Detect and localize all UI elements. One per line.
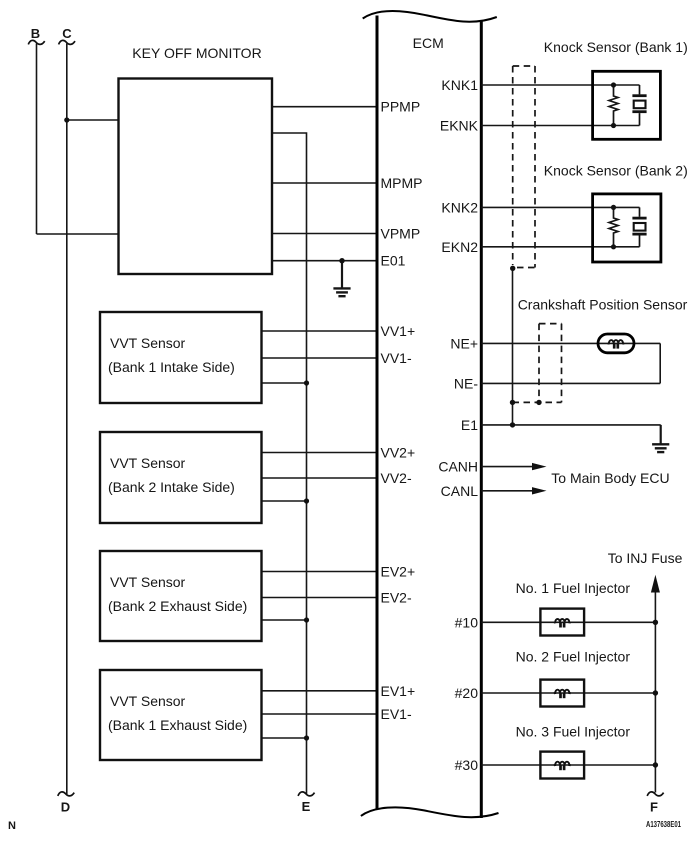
svg-text:MPMP: MPMP: [381, 175, 423, 191]
crankshaft position sensor pickup coil: [598, 334, 634, 353]
node drain to E1: [510, 422, 515, 427]
VVT sensor (Bank 1 Exhaust Side) box: [100, 670, 262, 760]
VVT sensor (Bank 1 Intake Side) box: [100, 312, 262, 403]
wire key-off-monitor to E bus: [272, 133, 307, 795]
svg-text:VV2-: VV2-: [381, 470, 412, 486]
svg-text:(Bank 1 Exhaust Side): (Bank 1 Exhaust Side): [108, 717, 247, 733]
svg-text:VV1-: VV1-: [381, 350, 412, 366]
svg-text:(Bank 2 Exhaust Side): (Bank 2 Exhaust Side): [108, 598, 247, 614]
wire EV2+: [262, 571, 378, 573]
wire #30: [481, 764, 655, 766]
svg-text:E01: E01: [381, 253, 406, 269]
wire EV2-: [262, 597, 378, 599]
ground (E01): [333, 288, 350, 296]
wire VV2+: [262, 452, 378, 454]
arrowhead CANL: [532, 487, 547, 494]
wire VVT2 to E bus: [262, 500, 307, 502]
wire PPMP: [272, 106, 377, 108]
wire CANL arrow: [481, 490, 534, 492]
resistor (knock sensor 1): [609, 85, 618, 126]
wire MPMP: [272, 182, 377, 184]
svg-text:VVT Sensor: VVT Sensor: [110, 574, 186, 590]
svg-text:EV1+: EV1+: [381, 683, 416, 699]
svg-text:KNK2: KNK2: [441, 199, 478, 215]
right-side wires: [481, 85, 660, 793]
wire C to key-off-monitor: [67, 119, 119, 121]
svg-text:Knock Sensor (Bank 1): Knock Sensor (Bank 1): [544, 39, 688, 55]
connector C wire: [66, 44, 68, 795]
node E01 ground tap: [339, 258, 344, 263]
node VVT2 on E bus: [304, 498, 309, 503]
svg-text:No. 2 Fuel Injector: No. 2 Fuel Injector: [516, 649, 631, 665]
No.1 fuel injector: [540, 609, 584, 636]
connector F break: [647, 792, 663, 796]
node knock shield drain: [510, 266, 515, 271]
wire B to key-off-monitor: [37, 233, 119, 235]
wire KNK2: [481, 206, 639, 208]
VVT sensor (Bank 2 Exhaust Side) box: [100, 551, 262, 641]
wire VV1+: [262, 330, 378, 332]
svg-text:To INJ Fuse: To INJ Fuse: [608, 550, 683, 566]
wire shield drain: [512, 268, 514, 425]
svg-text:To Main Body ECU: To Main Body ECU: [551, 470, 669, 486]
svg-text:E1: E1: [461, 417, 478, 433]
connector D break: [58, 792, 74, 796]
piezo element (knock sensor 1): [632, 85, 646, 126]
wire injector bus to INJ fuse: [654, 590, 656, 793]
node drain at crank shield: [510, 400, 515, 405]
wire VPMP: [272, 233, 377, 235]
svg-text:No. 1 Fuel Injector: No. 1 Fuel Injector: [516, 580, 631, 596]
svg-text:B: B: [31, 26, 40, 41]
svg-text:EV2+: EV2+: [381, 564, 416, 580]
wire NE+: [481, 342, 660, 344]
wire EKNK: [481, 125, 639, 127]
svg-text:VVT Sensor: VVT Sensor: [110, 335, 186, 351]
wire EKN2: [481, 246, 639, 248]
wire NE-: [481, 382, 660, 384]
svg-text:C: C: [62, 26, 72, 41]
svg-text:EKN2: EKN2: [441, 239, 478, 255]
svg-text:CANL: CANL: [441, 483, 479, 499]
svg-text:A137638E01: A137638E01: [646, 820, 681, 829]
svg-text:CANH: CANH: [438, 459, 478, 475]
svg-text:VV2+: VV2+: [381, 445, 416, 461]
svg-text:ECM: ECM: [413, 35, 444, 51]
svg-text:EV1-: EV1-: [381, 706, 412, 722]
ground (E1): [652, 444, 669, 452]
connector C break: [59, 40, 75, 44]
svg-text:KEY OFF MONITOR: KEY OFF MONITOR: [132, 45, 261, 61]
shielded cable (crankshaft sensor): [513, 324, 562, 403]
svg-text:No. 3 Fuel Injector: No. 3 Fuel Injector: [516, 724, 631, 740]
svg-text:F: F: [650, 800, 658, 815]
svg-text:Knock Sensor (Bank 2): Knock Sensor (Bank 2): [544, 163, 688, 179]
connector B break: [28, 40, 44, 44]
svg-text:E: E: [302, 799, 311, 814]
wire KNK1: [481, 84, 639, 86]
wire E01 ground stub: [341, 261, 343, 289]
ECM block: [361, 11, 499, 818]
wire VV2-: [262, 477, 378, 479]
node VVT3 on E bus: [304, 617, 309, 622]
svg-text:N: N: [8, 820, 16, 832]
svg-text:(Bank 2 Intake Side): (Bank 2 Intake Side): [108, 479, 235, 495]
wire EV1-: [262, 713, 378, 715]
svg-text:#30: #30: [455, 757, 479, 773]
node injector 1 bus: [653, 620, 658, 625]
svg-text:#20: #20: [455, 685, 479, 701]
wire VVT1 to E bus: [262, 382, 307, 384]
svg-text:VVT Sensor: VVT Sensor: [110, 455, 186, 471]
wire NE return: [659, 343, 661, 383]
node knock1 top: [611, 82, 616, 87]
wire VVT4 to E bus: [262, 737, 307, 739]
wire EV1+: [262, 690, 378, 692]
svg-text:NE+: NE+: [450, 335, 478, 351]
connector E break: [298, 792, 314, 796]
svg-text:EKNK: EKNK: [440, 118, 479, 134]
key off monitor block: [119, 45, 273, 274]
VVT sensor (Bank 2 Intake Side) box: [100, 432, 262, 523]
svg-text:PPMP: PPMP: [381, 99, 421, 115]
knock sensor (Bank 2) box: [593, 194, 661, 262]
wire #10: [481, 621, 655, 623]
node injector 3 bus: [653, 762, 658, 767]
resistor (knock sensor 2): [609, 207, 618, 246]
wire VV1-: [262, 357, 378, 359]
node knock2 top: [611, 205, 616, 210]
connector B wire: [36, 44, 38, 235]
wire #20: [481, 692, 655, 694]
svg-text:(Bank 1 Intake Side): (Bank 1 Intake Side): [108, 359, 235, 375]
svg-text:VV1+: VV1+: [381, 323, 416, 339]
wire E1: [481, 424, 660, 426]
wire E1 ground stub: [660, 425, 662, 444]
arrowhead to INJ fuse: [651, 575, 660, 593]
shielded cable (knock sensors): [513, 66, 535, 268]
svg-text:VPMP: VPMP: [381, 226, 421, 242]
node crank shield bottom: [536, 400, 541, 405]
wire CANH arrow: [481, 466, 534, 468]
node knock2 bottom: [611, 244, 616, 249]
svg-text:D: D: [61, 800, 70, 815]
node knock1 bottom: [611, 123, 616, 128]
piezo element (knock sensor 2): [632, 207, 646, 246]
wire E01: [272, 260, 377, 262]
node injector 2 bus: [653, 690, 658, 695]
svg-text:NE-: NE-: [454, 375, 478, 391]
node C tap: [64, 117, 69, 122]
svg-text:#10: #10: [455, 614, 479, 630]
No.2 fuel injector: [540, 680, 584, 707]
knock sensor (Bank 1) box: [593, 71, 661, 139]
svg-text:VVT Sensor: VVT Sensor: [110, 693, 186, 709]
No.3 fuel injector: [540, 752, 584, 779]
svg-text:Crankshaft Position Sensor: Crankshaft Position Sensor: [518, 296, 688, 312]
wire VVT3 to E bus: [262, 619, 307, 621]
svg-text:EV2-: EV2-: [381, 590, 412, 606]
node VVT4 on E bus: [304, 735, 309, 740]
arrowhead CANH: [532, 463, 547, 470]
node VVT1 on E bus: [304, 380, 309, 385]
svg-text:KNK1: KNK1: [441, 77, 478, 93]
